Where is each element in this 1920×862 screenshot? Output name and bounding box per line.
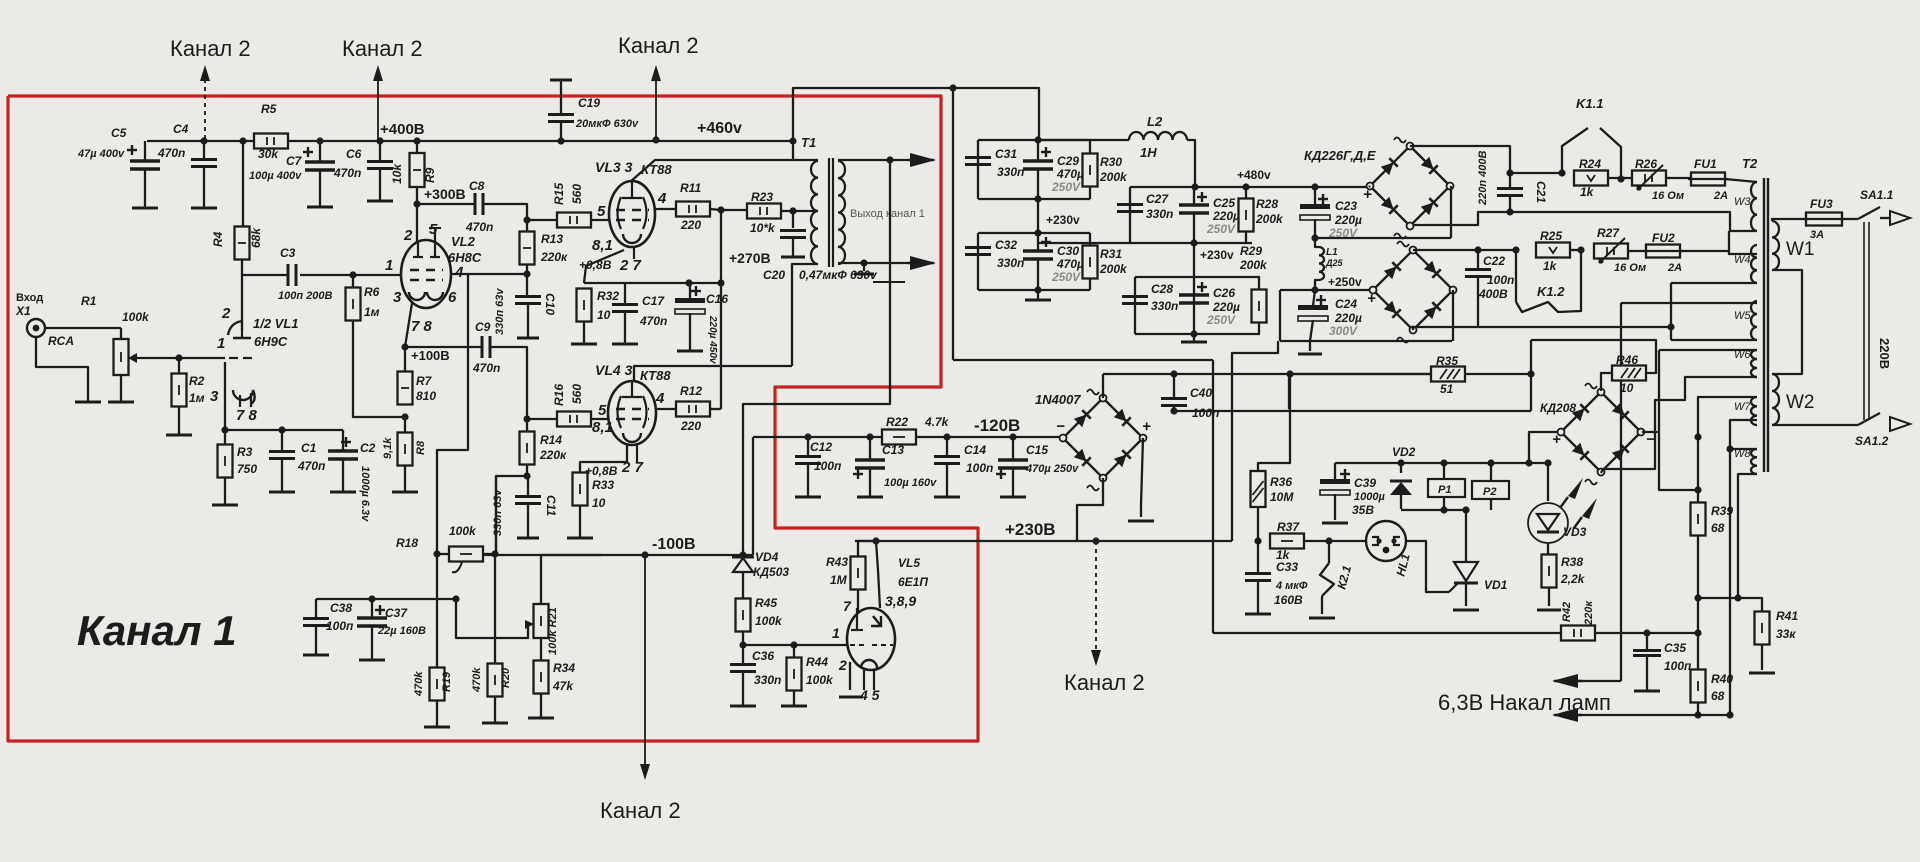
svg-text:R41: R41 <box>1776 609 1798 623</box>
svg-text:4.7k: 4.7k <box>924 415 950 429</box>
svg-text:R28: R28 <box>1256 197 1278 211</box>
diode VD4 KD503 <box>732 557 754 572</box>
switch SA1.1 <box>1858 207 1880 219</box>
node C16 tap <box>685 279 692 286</box>
svg-text:2A: 2A <box>1713 190 1728 202</box>
resistor R8 <box>398 433 413 466</box>
C13 top lead <box>869 437 871 460</box>
wire C38 net <box>316 598 456 600</box>
wire P bottom bus <box>1401 509 1466 511</box>
R40 top lead <box>1697 598 1699 669</box>
svg-text:220n 400В: 220n 400В <box>1477 151 1489 206</box>
node R39 feed <box>1694 486 1701 493</box>
ground X1 <box>75 401 101 404</box>
wire loop to R42 line <box>1213 632 1698 634</box>
wire VL2 pin5 lead <box>434 228 436 242</box>
svg-text:220µ: 220µ <box>1212 209 1240 223</box>
node filter2 top <box>1034 229 1041 236</box>
wire R18 right stub <box>483 553 495 555</box>
ground C12 <box>795 496 821 499</box>
wire bridge2 right down <box>1452 290 1454 341</box>
C29 top lead <box>1037 140 1039 161</box>
svg-text:100k: 100k <box>755 614 783 628</box>
wire R1 bottom <box>120 375 122 402</box>
svg-text:10: 10 <box>597 308 611 322</box>
node arrow3 <box>652 136 659 143</box>
svg-text:+400В: +400В <box>380 121 425 138</box>
wire R13node to C10 <box>526 274 528 296</box>
output arrow top <box>908 153 936 167</box>
wire C7 bottom <box>319 170 321 207</box>
svg-text:R23: R23 <box>751 190 773 204</box>
svg-text:C13: C13 <box>882 443 904 457</box>
svg-text:R12: R12 <box>680 384 702 398</box>
resistor R21 <box>534 604 549 638</box>
node R35 right <box>1527 370 1534 377</box>
wire C16 top <box>689 283 691 300</box>
svg-text:FU2: FU2 <box>1652 231 1675 245</box>
node A +270V feed <box>717 206 724 213</box>
svg-text:6Н8С: 6Н8С <box>448 250 482 265</box>
capacitor C17 <box>612 305 638 312</box>
R30 top lead <box>1089 140 1091 153</box>
C33 bottom lead <box>1257 581 1259 614</box>
L1 top lead <box>1315 238 1319 247</box>
svg-text:220: 220 <box>680 419 701 433</box>
wire bridge3 bottom <box>1077 478 1103 541</box>
filter2 left edge <box>977 233 979 290</box>
ground C39 <box>1322 522 1348 525</box>
svg-text:C22: C22 <box>1483 254 1505 268</box>
svg-text:220к: 220к <box>1583 600 1595 626</box>
thyristor VD1 <box>1449 562 1478 592</box>
wire bridge3 top <box>1102 374 1104 398</box>
svg-text:10k: 10k <box>390 163 404 184</box>
svg-text:R27: R27 <box>1597 226 1620 240</box>
svg-text:470µ: 470µ <box>1056 257 1084 271</box>
svg-text:R30: R30 <box>1100 155 1122 169</box>
wire C20 bottom <box>792 238 794 257</box>
node P2 top <box>1487 459 1494 466</box>
KD208 minus out <box>1642 431 1659 433</box>
wire L2 to +480 <box>1187 140 1195 187</box>
svg-text:Канал 2: Канал 2 <box>600 798 681 823</box>
capacitor C23 <box>1300 194 1330 220</box>
svg-text:250V: 250V <box>1051 270 1081 284</box>
svg-text:C28: C28 <box>1151 282 1173 296</box>
node C12 <box>804 433 811 440</box>
VL5 pin7 lead <box>856 608 858 630</box>
wire R34 bottom <box>540 694 542 718</box>
winding W4 <box>1751 245 1757 283</box>
node C13/R22 <box>866 433 873 440</box>
node -100V <box>641 551 648 558</box>
filter1 left edge <box>977 140 979 199</box>
wire R12 to riser <box>710 408 721 410</box>
VD2 top lead <box>1400 463 1402 473</box>
node R5 left <box>239 137 246 144</box>
ground C38 <box>303 654 329 657</box>
svg-text:КТ88: КТ88 <box>640 368 671 383</box>
svg-text:160В: 160В <box>1274 593 1303 607</box>
node group4 bottom <box>1190 330 1197 337</box>
svg-text:VD2: VD2 <box>1392 445 1416 459</box>
wire bridge2 top out <box>1413 249 1478 251</box>
svg-text:330n: 330n <box>997 256 1024 270</box>
wire W3 return <box>1413 212 1757 231</box>
svg-text:C11: C11 <box>544 495 558 516</box>
svg-text:20мкФ 630v: 20мкФ 630v <box>575 118 639 130</box>
svg-text:R2: R2 <box>189 374 205 388</box>
svg-text:C25: C25 <box>1213 196 1235 210</box>
svg-text:C2: C2 <box>360 441 376 455</box>
svg-text:1000µ 6.3v: 1000µ 6.3v <box>359 466 371 522</box>
wire R25 right <box>1570 249 1583 251</box>
heater arrow 2 <box>1552 708 1582 722</box>
node rail/KD208 <box>1525 459 1532 466</box>
wire W2 bottom <box>1772 424 1858 426</box>
wire R18 left stub <box>437 553 449 555</box>
svg-text:330n 63v: 330n 63v <box>492 489 504 536</box>
resistor R34 <box>534 661 549 694</box>
C14 bottom lead <box>946 464 948 497</box>
svg-text:T2: T2 <box>1742 156 1758 171</box>
svg-text:250V: 250V <box>1206 313 1236 327</box>
wire R14 bottom <box>526 465 528 476</box>
capacitor C3 <box>288 264 296 286</box>
wire C4 bottom <box>203 167 205 208</box>
svg-text:КД208: КД208 <box>1540 401 1576 415</box>
VL1 cathode arc <box>233 390 255 404</box>
node W8 top <box>1726 445 1733 452</box>
svg-text:C39: C39 <box>1354 476 1376 490</box>
resistor R37 <box>1270 534 1304 549</box>
svg-text:FU1: FU1 <box>1694 157 1717 171</box>
wire W4 feed <box>1478 249 1516 251</box>
resistor R30 <box>1083 154 1098 187</box>
resistor R2 <box>172 374 187 407</box>
wire R21 top <box>540 555 542 604</box>
wire VL3 pin4 to R11 <box>654 208 676 210</box>
resistor R46 <box>1612 366 1646 381</box>
svg-text:C24: C24 <box>1335 297 1357 311</box>
wire R8 bottom <box>404 466 406 492</box>
node R6 top <box>349 271 356 278</box>
svg-text:51: 51 <box>1440 382 1454 396</box>
filter1 bottom wire <box>978 198 1090 200</box>
node K21 <box>1325 537 1332 544</box>
svg-text:C14: C14 <box>964 443 986 457</box>
winding W3 <box>1751 182 1757 231</box>
svg-text:16 Ом: 16 Ом <box>1614 262 1646 274</box>
wire VL5 anode curve <box>876 541 880 608</box>
wire W4 return <box>1413 326 1671 328</box>
wire R15 left <box>527 219 557 221</box>
group3 top wire <box>1129 187 1131 243</box>
T1 secondary <box>838 161 845 264</box>
wire VL2 pin2 to +300V <box>416 204 418 242</box>
wire R4 to VL1 anode <box>241 260 243 330</box>
R28 top lead <box>1245 187 1247 198</box>
group4 top wire <box>1135 276 1260 278</box>
svg-text:R46: R46 <box>1616 353 1638 367</box>
svg-text:R44: R44 <box>806 655 828 669</box>
svg-text:R43: R43 <box>826 555 848 569</box>
fuse FU2 <box>1643 245 1683 258</box>
svg-text:P1: P1 <box>1438 484 1451 496</box>
R31 bottom lead <box>1089 279 1091 290</box>
svg-text:470µ 250v: 470µ 250v <box>1025 463 1079 475</box>
svg-text:W4: W4 <box>1734 254 1751 266</box>
node R14/C11 <box>523 472 530 479</box>
bridge KD208 <box>1558 384 1645 485</box>
svg-text:1k: 1k <box>1580 185 1595 199</box>
svg-text:5: 5 <box>598 402 607 419</box>
VL5 target arrow <box>871 616 881 626</box>
wire W5 heater drop <box>1620 303 1622 681</box>
svg-text:8,1: 8,1 <box>592 419 613 436</box>
node R18 left <box>433 550 440 557</box>
wire -120V rail <box>753 436 1065 438</box>
svg-text:C27: C27 <box>1146 192 1169 206</box>
R35 net left <box>1288 374 1290 409</box>
svg-text:200k: 200k <box>1099 262 1128 276</box>
svg-text:330n: 330n <box>1146 207 1173 221</box>
svg-text:Канал 2: Канал 2 <box>342 36 423 61</box>
ground C14 <box>934 496 960 499</box>
svg-text:P2: P2 <box>1483 486 1496 498</box>
svg-text:Канал 2: Канал 2 <box>170 36 251 61</box>
ground C20 <box>781 256 805 259</box>
svg-text:560: 560 <box>570 184 584 204</box>
C24 ground stub <box>1309 341 1311 351</box>
svg-text:C5: C5 <box>111 126 127 140</box>
wire R13 top <box>526 220 528 231</box>
wire VL4 anode line <box>634 366 792 381</box>
wire W3 feed <box>1510 172 1562 174</box>
svg-text:R16: R16 <box>552 384 566 406</box>
resistor R13 <box>520 232 535 265</box>
wire R32 bottom <box>583 322 585 344</box>
Kanal 2 mid arrow <box>1091 541 1101 666</box>
capacitor C11 <box>515 497 541 504</box>
svg-text:−: − <box>1646 431 1655 448</box>
relay coil P1 <box>1428 479 1465 497</box>
capacitor C37 <box>357 605 387 626</box>
C33 top lead <box>1257 541 1259 573</box>
wire R6 top lead <box>352 275 354 287</box>
capacitor C36 <box>730 665 756 672</box>
wire R2 top <box>178 358 180 374</box>
wire top rail to PSU <box>793 88 1039 141</box>
group4 ground lead <box>1193 334 1195 342</box>
ground R32 <box>571 343 597 346</box>
resistor R38 <box>1542 555 1557 588</box>
svg-text:2A: 2A <box>1667 262 1682 274</box>
R38 bottom lead <box>1548 588 1550 606</box>
svg-text:220: 220 <box>680 218 701 232</box>
heater line 2 <box>1578 714 1730 716</box>
node R18 right <box>491 550 498 557</box>
capacitor C2 <box>328 437 358 459</box>
output arrow bottom <box>908 256 936 270</box>
VL5 cathode arc <box>861 660 877 668</box>
svg-text:1: 1 <box>385 257 393 274</box>
node secondary top <box>886 156 893 163</box>
svg-text:470n: 470n <box>333 166 361 180</box>
C10 end bar <box>517 337 539 340</box>
svg-text:C33: C33 <box>1276 560 1298 574</box>
group4 left edge <box>1134 277 1136 334</box>
C22 bottom lead <box>1477 277 1479 327</box>
svg-text:470п: 470п <box>297 459 326 473</box>
svg-text:W5: W5 <box>1734 310 1751 322</box>
mains arrow bottom <box>1890 417 1910 431</box>
ground R1 <box>108 401 134 404</box>
ground VL5 <box>839 696 863 699</box>
C24 top lead <box>1313 290 1315 306</box>
node C40 bottom <box>1170 407 1177 414</box>
svg-text:C23: C23 <box>1335 199 1357 213</box>
C25 bottom lead <box>1193 213 1195 243</box>
wire W4/W5 link <box>1670 283 1672 340</box>
capacitor C1 <box>269 452 295 459</box>
C21 top lead <box>1509 173 1511 188</box>
ground C24 <box>1298 353 1322 356</box>
R46 left lead <box>1601 373 1612 391</box>
ground C35 <box>1634 690 1660 693</box>
K2.1 lower <box>1321 596 1323 614</box>
wire bridge1 top out <box>1410 146 1510 173</box>
C21 bottom lead <box>1509 196 1511 212</box>
svg-text:4 5: 4 5 <box>859 687 880 703</box>
svg-text:-120В: -120В <box>974 416 1020 435</box>
svg-text:560: 560 <box>570 384 584 404</box>
C35 bottom lead <box>1646 656 1648 691</box>
thermistor R27 <box>1594 244 1628 259</box>
resistor R42 <box>1561 626 1595 641</box>
wire T1 top feed <box>792 141 794 160</box>
svg-text:2: 2 <box>221 305 231 322</box>
capacitor C27 <box>1117 205 1143 212</box>
R30 bottom lead <box>1089 187 1091 199</box>
C30 top lead <box>1037 233 1039 251</box>
svg-text:R4: R4 <box>211 231 225 247</box>
svg-text:R20: R20 <box>500 667 512 688</box>
svg-text:+270В: +270В <box>729 250 771 266</box>
wire R7 top <box>404 347 406 371</box>
ground R3 <box>212 504 238 507</box>
svg-text:R22: R22 <box>886 415 908 429</box>
wire C8 to R15 node <box>484 204 527 220</box>
svg-text:2 7: 2 7 <box>619 257 642 274</box>
ground filter2 <box>1025 299 1051 302</box>
Kanal 2 arrow 3 <box>651 65 661 140</box>
wire R3 top <box>224 430 226 445</box>
K1.2 blade <box>1516 250 1581 312</box>
svg-text:1М: 1М <box>830 573 848 587</box>
svg-text:C38: C38 <box>330 601 352 615</box>
node PSU tap <box>949 84 956 91</box>
wire PSU feed vertical <box>952 88 954 360</box>
inductor L1 <box>1319 247 1324 280</box>
wire node A riser <box>720 210 722 409</box>
wire bridge1 right down <box>1450 186 1452 238</box>
svg-text:R40: R40 <box>1711 672 1733 686</box>
wire R21 bottom <box>540 638 542 660</box>
node T1 plus460 <box>789 137 796 144</box>
svg-text:100n: 100n <box>966 461 993 475</box>
node C23 bottom <box>1311 234 1318 241</box>
wire R43 bottom <box>857 590 859 614</box>
wire W5 top feed <box>1621 302 1757 304</box>
resistor R20 <box>488 664 503 697</box>
wire R3 bottom <box>224 478 226 505</box>
svg-text:+100В: +100В <box>411 348 450 363</box>
wire R33 bottom <box>579 506 581 538</box>
svg-text:VD4: VD4 <box>755 550 779 564</box>
svg-text:1: 1 <box>832 625 840 641</box>
node R2 top <box>175 354 182 361</box>
svg-text:2: 2 <box>838 657 847 673</box>
node P1 top <box>1440 459 1447 466</box>
svg-text:400В: 400В <box>1478 287 1508 301</box>
wire +100V to C9 <box>405 346 481 348</box>
wire W4 bottom <box>1671 282 1757 284</box>
svg-text:1: 1 <box>217 335 225 352</box>
svg-text:470n: 470n <box>157 146 185 160</box>
resistor R15 <box>557 213 591 228</box>
svg-text:6: 6 <box>448 289 457 306</box>
wire -120V drop <box>752 437 754 555</box>
group4 bottom wire <box>1135 333 1260 335</box>
resistor R6 <box>346 288 361 321</box>
heater arrow 1 <box>1552 674 1582 688</box>
svg-text:68: 68 <box>1711 521 1725 535</box>
node R43/+230V <box>872 537 879 544</box>
svg-text:+230В: +230В <box>1005 520 1056 539</box>
C23 bottom lead <box>1314 219 1316 238</box>
svg-text:R32: R32 <box>597 289 619 303</box>
svg-text:810: 810 <box>416 389 436 403</box>
svg-text:100k: 100k <box>122 310 150 324</box>
svg-text:10М: 10М <box>1270 490 1294 504</box>
K2.1 blade <box>1320 563 1334 596</box>
svg-text:470k: 470k <box>413 671 425 697</box>
resistor R31 <box>1083 246 1098 279</box>
wire node A to R23 <box>721 209 747 211</box>
wire R1 wiper to VL1 grid <box>136 357 225 359</box>
node R16/R14 <box>523 415 530 422</box>
VL5 grid dash <box>850 644 868 646</box>
R40 bottom lead <box>1697 703 1699 715</box>
svg-text:C36: C36 <box>752 649 774 663</box>
wire bridge3 plus down <box>1141 438 1143 517</box>
wire C6 top <box>379 141 381 162</box>
svg-text:SA1.1: SA1.1 <box>1860 188 1894 202</box>
bridge 1N4007 <box>1060 390 1147 491</box>
wire cathode rail <box>584 282 721 284</box>
C23 top lead <box>1314 187 1316 205</box>
ground R41 <box>1749 672 1775 675</box>
capacitor C8 <box>475 193 483 215</box>
wire R18 feedback path <box>437 275 468 554</box>
wire R18 right riser <box>495 476 497 554</box>
svg-text:3: 3 <box>393 289 402 306</box>
wire VD3 top <box>1547 463 1549 501</box>
wire R37 to K2.1 <box>1304 540 1366 542</box>
svg-text:R26: R26 <box>1635 157 1657 171</box>
